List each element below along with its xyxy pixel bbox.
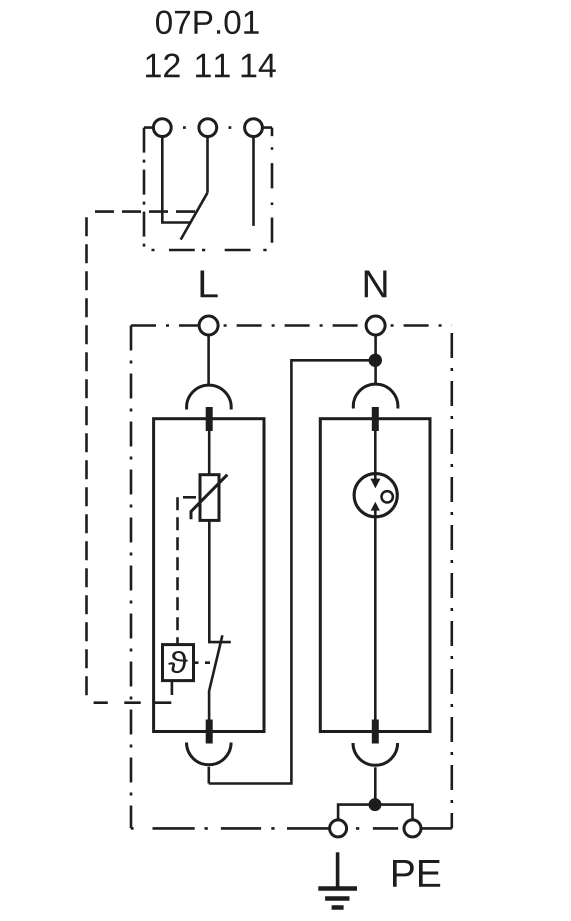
theta sensor box <box>163 645 194 681</box>
module1 bottom plug contact bar <box>206 720 213 744</box>
wire pin 12 down and contact <box>162 137 191 223</box>
plug-in disconnect arc module2 top <box>353 384 398 408</box>
wire pin 11 down <box>206 137 209 193</box>
wire N junction to left and down to module 1 bottom <box>209 360 375 783</box>
theta box bottom stub <box>171 681 174 695</box>
wire N down <box>374 335 377 385</box>
wire bar to gas tube <box>374 431 377 480</box>
module2 bottom plug contact bar <box>372 720 379 744</box>
gdt lower electrode arrow <box>371 502 380 511</box>
ground stem <box>336 852 340 887</box>
label PE <box>393 860 440 887</box>
module1 bottom disconnect arc <box>187 743 232 765</box>
wire pin 14 down <box>252 137 255 226</box>
ground bar 3 <box>332 905 344 910</box>
terminal L <box>199 316 218 335</box>
label pin 11 <box>196 54 230 77</box>
dashed remote signalling link <box>87 212 196 703</box>
module 2 (gas discharge tube) body <box>320 419 430 732</box>
module2 bottom disconnect arc <box>353 743 398 765</box>
PE terminal right <box>404 820 421 837</box>
terminal N <box>366 316 385 335</box>
ground bar 1 <box>318 886 357 891</box>
label pin 14 <box>242 54 276 77</box>
plug contact bar module1 top <box>206 407 213 431</box>
label 07P.01 <box>156 11 259 35</box>
switch blade (changeover common) <box>181 193 208 240</box>
dashed temperature link varistor to theta <box>178 497 197 644</box>
wire L down to plug arc <box>207 335 210 385</box>
wire arc to PE junction <box>374 767 377 804</box>
plug-in disconnect arc module1 top <box>187 385 232 409</box>
terminal 12 <box>153 119 171 137</box>
wire gdt down to bottom bar <box>374 510 377 720</box>
SPD enclosure box (dash-dot) <box>131 326 452 829</box>
label pins 12 11 14 <box>146 53 180 77</box>
varistor body rect <box>200 475 219 521</box>
PE split wires <box>338 805 412 820</box>
wire module1 arc to N link <box>208 767 211 784</box>
PE junction node <box>369 798 382 811</box>
dashed link theta to blade <box>194 661 214 664</box>
wire bar to varistor <box>208 431 211 475</box>
gas discharge tube circle <box>354 474 397 517</box>
ground bar 2 <box>325 896 349 901</box>
varistor diagonal with foot <box>191 475 227 520</box>
theta glyph <box>168 651 187 673</box>
terminal 11 <box>199 119 217 137</box>
thermal disconnect blade <box>209 635 222 719</box>
module 1 (varistor) body <box>154 419 264 732</box>
gdt gas indicator small circle <box>382 491 393 502</box>
plug contact bar module2 top <box>372 407 379 431</box>
PE terminal left <box>330 820 347 837</box>
terminal 14 <box>245 119 263 137</box>
junction node on N <box>369 354 382 367</box>
label N <box>365 270 387 297</box>
wire varistor to thermal contact <box>209 520 231 642</box>
label L <box>201 270 218 297</box>
gdt upper electrode arrow <box>370 479 380 489</box>
relay contact box 07P.01 (dash-dot) <box>144 128 272 250</box>
